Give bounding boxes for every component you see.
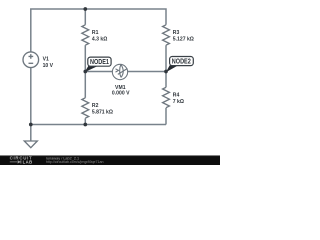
watermark logo LAB with diode (10, 160, 33, 165)
wire R4 bottom to bottom rail (165, 108, 167, 125)
svg-text:NODE2: NODE2 (172, 58, 191, 65)
watermark bar (0, 155, 220, 165)
wire R2 bottom stub (84, 118, 86, 124)
resistor R3 (163, 25, 170, 45)
svg-text:R1: R1 (92, 30, 99, 36)
node NODE2 label (166, 57, 193, 73)
wire R2 top stub (84, 72, 86, 98)
wire V1 bottom down (30, 68, 32, 125)
svg-text:7 kΩ: 7 kΩ (173, 99, 184, 105)
voltage source V1 (23, 52, 39, 68)
junction NODE1 (83, 70, 87, 74)
resistor R2 (82, 98, 89, 118)
junction top (R1/top rail) (83, 7, 87, 11)
junction NODE2 (164, 70, 168, 74)
svg-text:10 V: 10 V (43, 63, 54, 69)
wire NODE2 to R4 top (165, 72, 167, 88)
svg-text:R2: R2 (92, 103, 99, 109)
svg-text:4.3 kΩ: 4.3 kΩ (92, 37, 107, 43)
svg-text:NODE1: NODE1 (90, 59, 109, 66)
svg-text:0.000 V: 0.000 V (112, 91, 130, 97)
svg-text:V1: V1 (43, 56, 49, 62)
svg-text:LAB: LAB (23, 160, 33, 165)
node NODE1 label (85, 57, 111, 72)
resistor R4 (163, 87, 170, 107)
svg-text:R4: R4 (173, 93, 180, 99)
wire R1 bottom to NODE1 (84, 45, 86, 71)
junction ground/bottom rail (29, 123, 33, 127)
resistor R1 (82, 25, 89, 45)
wire top rail with left drop to V1 and right drop to R3 (31, 9, 166, 141)
wire R1 top stub (84, 9, 86, 25)
voltmeter VM1 (112, 64, 127, 79)
svg-text:R3: R3 (173, 30, 180, 36)
wire NODE1 to voltmeter (85, 71, 112, 73)
svg-text:http://circuitlab.com/c/jmgr89: http://circuitlab.com/c/jmgr89qe71an (46, 160, 104, 164)
labels (43, 30, 194, 116)
junction R2/bottom rail (83, 123, 87, 127)
wire bottom rail (31, 124, 166, 126)
wire voltmeter to NODE2 (128, 71, 166, 73)
svg-text:5.127 kΩ: 5.127 kΩ (173, 37, 194, 43)
wire ground stub (30, 125, 32, 142)
ground (24, 141, 37, 148)
wire R3 bottom to NODE2 (165, 45, 167, 71)
svg-text:5.871 kΩ: 5.871 kΩ (92, 109, 113, 115)
